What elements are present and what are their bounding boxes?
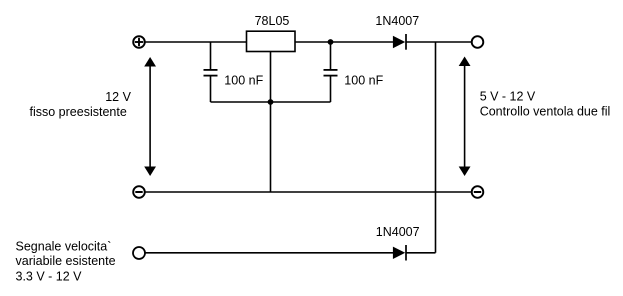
svg-text:Segnale velocita`: Segnale velocita` (16, 239, 112, 253)
svg-text:1N4007: 1N4007 (375, 14, 419, 28)
svg-text:100 nF: 100 nF (224, 74, 263, 88)
svg-text:Controllo ventola due fil: Controllo ventola due fil (480, 105, 611, 119)
svg-text:5 V - 12 V: 5 V - 12 V (480, 89, 536, 103)
svg-text:3.3 V - 12 V: 3.3 V - 12 V (16, 269, 83, 283)
svg-text:78L05: 78L05 (255, 14, 290, 28)
svg-text:100 nF: 100 nF (344, 74, 383, 88)
svg-text:12 V: 12 V (105, 90, 131, 104)
svg-text:variabile esistente: variabile esistente (16, 254, 116, 268)
svg-text:1N4007: 1N4007 (376, 225, 420, 239)
svg-text:fisso preesistente: fisso preesistente (30, 105, 127, 119)
